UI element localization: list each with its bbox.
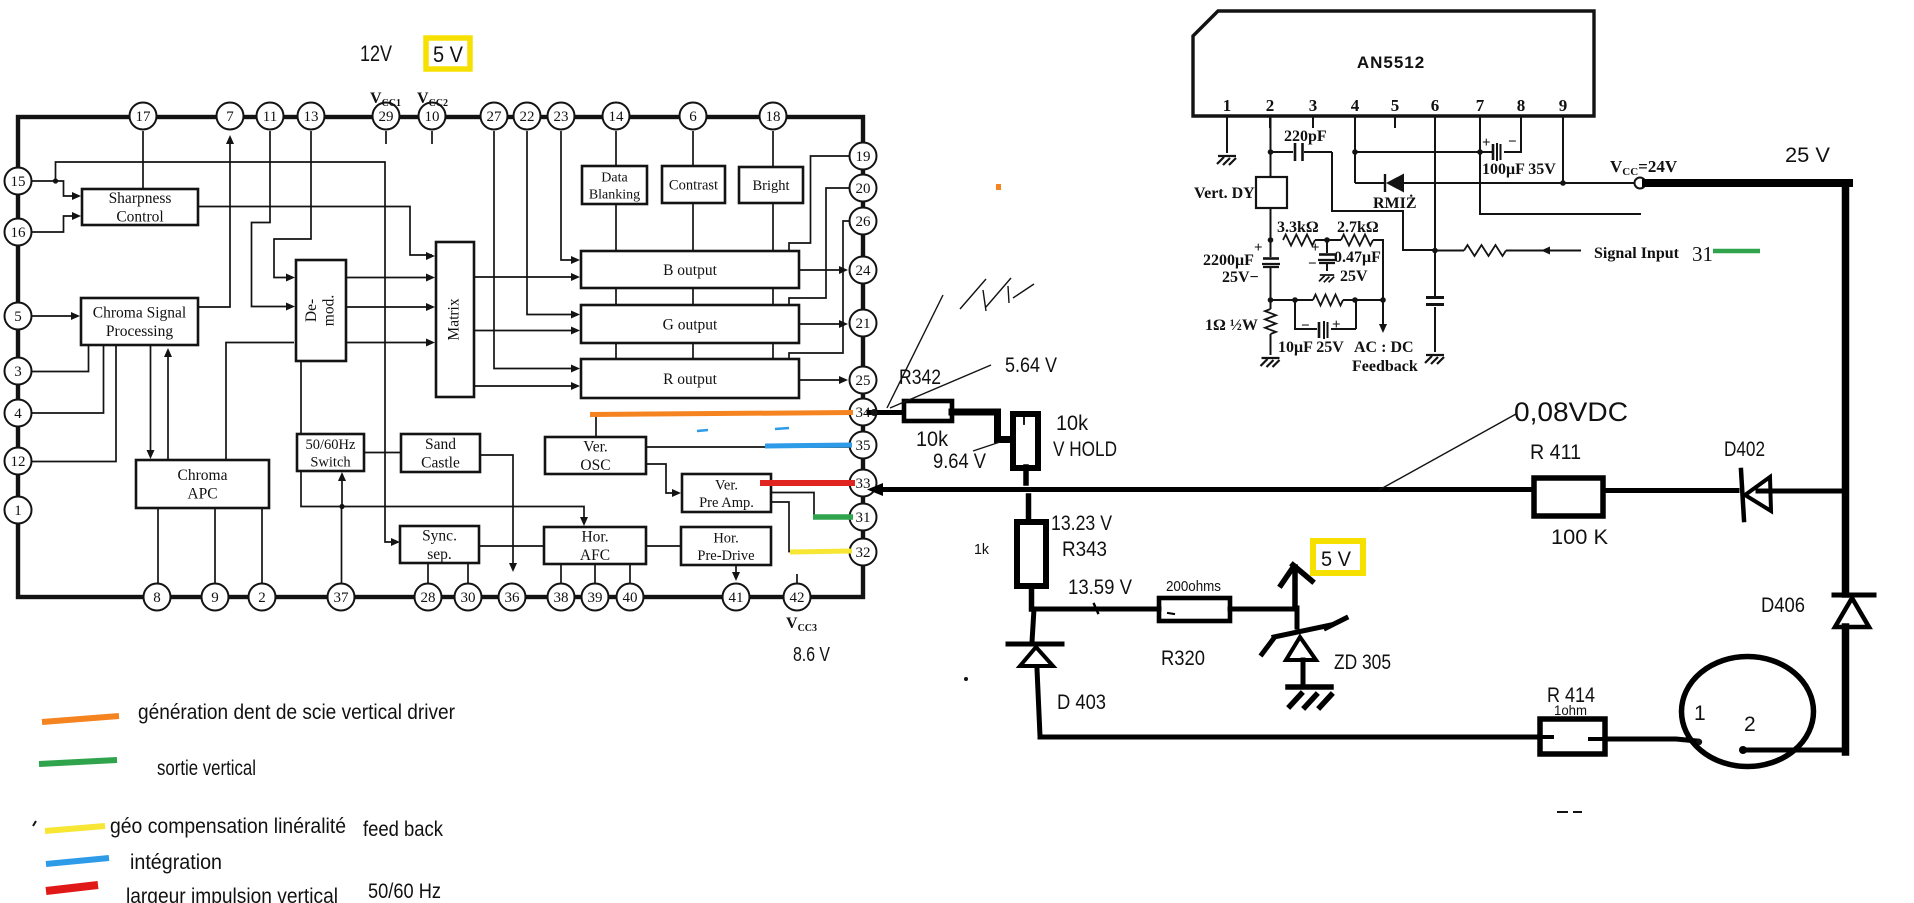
arrowhead Matrix to B output [571, 273, 580, 281]
svg-text:17: 17 [136, 109, 152, 125]
svg-text:+: + [1332, 317, 1341, 333]
wire 220pF to feedback node [1332, 152, 1434, 250]
svg-text:Castle: Castle [421, 455, 460, 472]
svg-text:27: 27 [487, 109, 503, 125]
wire Sync sep to pin30 [467, 563, 469, 583]
capacitor 2200uF 25V [1203, 240, 1280, 286]
stub pin10 [431, 131, 433, 144]
svg-text:5 V: 5 V [433, 42, 463, 67]
marker green line at 31 [1713, 249, 1760, 254]
block Hor. Pre-Drive [681, 527, 771, 565]
wire De-mod bottom to Hor AFC [301, 361, 584, 523]
potentiometer 10k V HOLD [1013, 414, 1038, 468]
svg-text:18: 18 [766, 109, 781, 125]
marker blue line pin35 (integration) [765, 445, 852, 446]
wire Chroma APC to pin2 [261, 508, 263, 583]
ground at AN5512 pin1 [1217, 156, 1236, 165]
svg-text:3: 3 [1309, 96, 1318, 115]
svg-text:31: 31 [856, 510, 871, 526]
svg-text:13.59 V: 13.59 V [1068, 576, 1132, 599]
svg-text:50/60Hz: 50/60Hz [306, 437, 357, 453]
legend red line [46, 885, 98, 891]
tiny dot left of D403 [964, 677, 968, 681]
svg-text:35: 35 [856, 438, 871, 454]
arrowhead down into pin 41 [732, 572, 740, 581]
svg-text:12V: 12V [360, 41, 392, 66]
pin 21 [850, 310, 877, 337]
svg-text:génération dent de scie vertic: génération dent de scie vertical driver [138, 701, 455, 724]
wire Chroma APC to Chroma Signal Processing [167, 351, 169, 460]
thick wire pin33 long horizontal [880, 490, 1845, 492]
pin 39 [582, 584, 609, 611]
arrowhead up into Chroma Signal Processing [164, 348, 172, 357]
wire De-mod output 1 to Matrix [346, 277, 432, 279]
wire Hor Pre-Drive to pin41 [735, 565, 737, 578]
pin 40 [617, 584, 644, 611]
svg-text:1: 1 [14, 503, 22, 519]
svg-text:25: 25 [856, 373, 871, 389]
svg-text:Sand: Sand [425, 436, 456, 453]
svg-text:mod.: mod. [320, 295, 337, 326]
pointer line sawtooth to pin34 [887, 295, 943, 408]
arrow up to 5V [1281, 565, 1312, 608]
pin 25 [850, 367, 877, 394]
wire R342 to V HOLD pot [952, 412, 1011, 440]
svg-text:Data: Data [601, 170, 628, 185]
wire Ver Pre Amp to pin31 [771, 493, 848, 518]
capacitor 10uF 25V [1278, 300, 1356, 356]
pin 15 [5, 168, 32, 195]
svg-text:3.3kΩ: 3.3kΩ [1277, 219, 1319, 236]
block Sync. sep. [400, 526, 479, 563]
wire pin12 to Chroma Signal Processing [31, 345, 116, 462]
arrowhead into Sync. sep. [391, 538, 400, 546]
wire pin7 from Chroma Signal Processing [198, 140, 230, 307]
resistor signal input [1464, 245, 1506, 256]
wire R output to pin25 [799, 379, 845, 381]
arrowhead signal input (points left) [1541, 247, 1550, 255]
svg-text:40: 40 [623, 590, 638, 606]
arrowhead into pin 33 [867, 483, 883, 496]
arrowhead Matrix to R output [571, 382, 580, 390]
svg-text:D 403: D 403 [1057, 691, 1106, 714]
capacitor 100uF 35V [1480, 134, 1556, 178]
svg-text:Ver.: Ver. [715, 477, 738, 493]
svg-text:25V−: 25V− [1222, 269, 1259, 286]
wire Hor AFC to pin40 [629, 564, 631, 583]
svg-text:−: − [1508, 134, 1517, 150]
wire pin34 to Ver OSC top [596, 413, 850, 437]
junction dot pin15 node [53, 178, 58, 183]
resistor R414 1ohm [1540, 719, 1605, 754]
pin 1 [5, 497, 32, 524]
svg-text:G output: G output [663, 316, 718, 333]
arrowhead into De-mod pin11 input [286, 303, 295, 311]
svg-text:sep.: sep. [427, 546, 452, 563]
svg-text:10k: 10k [916, 428, 948, 451]
svg-text:10k: 10k [1056, 412, 1088, 435]
resistor R320 200ohms [1159, 598, 1230, 621]
arrowhead into pin 25 [839, 376, 848, 384]
pin 4 [5, 400, 32, 427]
svg-text:sortie vertical: sortie vertical [157, 757, 256, 780]
capacitor 0.47uF 25V [1308, 240, 1381, 285]
wire pin6 to Contrast [692, 131, 694, 166]
wire AN5512 pin4 [1355, 116, 1479, 183]
svg-text:Pre Amp.: Pre Amp. [699, 495, 754, 511]
arrowhead into pin 24 [839, 266, 848, 274]
diode RMIZ [1373, 174, 1563, 213]
svg-text:10: 10 [425, 109, 440, 125]
wire Hor AFC to Hor Pre-Drive [646, 545, 681, 547]
block Hor. AFC [544, 527, 646, 564]
resistor R342 [904, 401, 952, 421]
svg-text:38: 38 [554, 590, 569, 606]
wire pin22 to G output [527, 131, 577, 315]
resistor on feedback rail [1313, 295, 1343, 306]
wire Chroma Signal Processing to Chroma APC [150, 345, 152, 456]
svg-text:13: 13 [304, 109, 319, 125]
arrowhead into Sharpness upper [72, 192, 81, 200]
AN5512 pin 6 [1431, 96, 1440, 128]
block Ver. Pre Amp. [682, 474, 771, 512]
pin 13 [298, 103, 325, 130]
arrowhead into Matrix 2 [426, 303, 435, 311]
thick wire pin34 to R342 [869, 410, 903, 415]
pin 33 [850, 470, 877, 497]
svg-text:ZD 305: ZD 305 [1334, 651, 1391, 674]
arrowhead into Matrix from Sharpness [426, 252, 435, 260]
svg-text:Pre-Drive: Pre-Drive [697, 548, 754, 564]
wire R343 to D403 node [1029, 586, 1035, 609]
resistor 1ohm half watt zigzag [1265, 309, 1276, 334]
svg-text:RMIŻ: RMIŻ [1373, 193, 1417, 212]
ground below 0.47uF [1319, 275, 1334, 282]
wire Sync sep to pin28 [427, 563, 429, 583]
svg-text:R343: R343 [1062, 538, 1107, 561]
pin 14 [603, 103, 630, 130]
svg-text:220pF: 220pF [1284, 128, 1327, 145]
svg-text:Switch: Switch [310, 454, 351, 470]
svg-text:Vert. DY: Vert. DY [1194, 185, 1255, 202]
pin 23 [548, 103, 575, 130]
wire Matrix to B output [474, 276, 577, 278]
wire pot bottom to vertical rail [1023, 467, 1029, 483]
wire pin37 to 50/60Hz Switch [341, 475, 344, 583]
pin 3 [5, 358, 32, 385]
arrowhead up into pin 7 [226, 135, 234, 144]
svg-text:4: 4 [14, 406, 22, 422]
svg-text:géo compensation linéralité: géo compensation linéralité [110, 815, 346, 838]
wire Hor AFC to pin38 [560, 564, 562, 583]
column Bright through outputs [772, 203, 774, 359]
wire Hor AFC to pin39 [594, 564, 596, 583]
ground below pin6 capacitor [1425, 355, 1444, 364]
pin 38 [548, 584, 575, 611]
svg-text:2.7kΩ: 2.7kΩ [1337, 219, 1379, 236]
svg-text:21: 21 [856, 316, 871, 332]
svg-text:Signal Input: Signal Input [1594, 245, 1680, 262]
pin 2 [249, 584, 276, 611]
wire pin4 to Chroma Signal Processing [31, 345, 104, 413]
sawtooth sketch [960, 278, 1034, 311]
svg-text:AFC: AFC [580, 547, 610, 564]
svg-text:8: 8 [1517, 96, 1526, 115]
svg-text:13.23 V: 13.23 V [1051, 512, 1112, 535]
svg-text:3: 3 [14, 364, 22, 380]
svg-text:AC : DC: AC : DC [1354, 339, 1414, 356]
svg-text:15: 15 [11, 174, 26, 190]
pin 41 [723, 584, 750, 611]
svg-text:OSC: OSC [580, 457, 610, 474]
arrowhead down into Hor AFC [580, 517, 588, 526]
pin 32 [850, 539, 877, 566]
pin 22 [514, 103, 541, 130]
AN5512 pin 4 [1351, 96, 1360, 128]
svg-text:R output: R output [663, 371, 718, 388]
wire 2.7k right to bottom rail [1373, 240, 1383, 300]
thick Vcc 25V wire [1646, 179, 1849, 187]
pin 42 [784, 584, 811, 611]
small orange dot [996, 184, 1001, 190]
svg-text:B output: B output [663, 262, 718, 279]
wire pin26 to R output top [789, 221, 849, 359]
svg-text:4: 4 [1351, 96, 1360, 115]
block Data Blanking [582, 166, 647, 204]
wire Chroma APC to pin8 [157, 508, 159, 583]
block Matrix [436, 242, 474, 397]
svg-text:41: 41 [729, 590, 744, 606]
wire De-mod output 2 to Matrix [346, 306, 432, 308]
svg-text:Chroma: Chroma [178, 467, 228, 484]
pin 19 [850, 143, 877, 170]
small dashes [1557, 811, 1582, 813]
wire Ver Pre Amp to pin33 [771, 483, 848, 485]
wire pin17 to Sharpness Control [142, 131, 144, 189]
svg-text:Control: Control [116, 209, 163, 226]
stub pin29 [385, 131, 387, 144]
annotation 5 V yellow box near zener [1313, 541, 1363, 573]
pointer line 0,08VDC [1379, 414, 1516, 490]
connector circle [1682, 657, 1814, 767]
tick on wire [1094, 604, 1098, 613]
svg-text:42: 42 [790, 590, 805, 606]
wire Sync sep to Hor AFC [479, 545, 544, 547]
svg-text:10μF 25V: 10μF 25V [1278, 339, 1344, 356]
legend green line [39, 760, 117, 764]
svg-text:25V: 25V [1340, 268, 1368, 285]
pointer line to 9.64V [973, 442, 1000, 451]
svg-text:19: 19 [856, 149, 871, 165]
Vcc terminal [1563, 157, 1678, 189]
svg-text:9: 9 [211, 590, 219, 606]
svg-text:Bright: Bright [752, 178, 789, 194]
svg-text:28: 28 [421, 590, 436, 606]
arrowhead into B output from pin23 [571, 256, 580, 264]
AN5512 pin 7 [1476, 96, 1485, 128]
AN5512 pin 2 [1266, 96, 1275, 128]
stub pin42 [796, 574, 798, 583]
block Sand Castle [401, 434, 480, 472]
svg-text:39: 39 [588, 590, 603, 606]
component Vert. DY (yoke) box [1194, 177, 1287, 208]
wire pin23 to B output [561, 131, 577, 260]
svg-text:6: 6 [1431, 96, 1440, 115]
pin 16 [5, 219, 32, 246]
svg-text:+: + [1254, 240, 1263, 256]
svg-text:1k: 1k [974, 541, 989, 558]
wire R414 to connector pin 1 [1605, 739, 1697, 741]
resistor 3.3k zigzag [1283, 235, 1315, 246]
block 50/60Hz Switch [297, 434, 364, 471]
svg-text:24: 24 [856, 263, 872, 279]
legend yellow line [45, 826, 105, 831]
svg-text:8.6 V: 8.6 V [793, 644, 831, 666]
IC AN5512 package outline [1193, 11, 1594, 116]
wire B output to pin24 [799, 269, 845, 271]
wire pin19 to B output top [789, 156, 849, 251]
block Bright [739, 167, 803, 203]
wire pin15 node [31, 180, 55, 182]
pin 5 [5, 303, 32, 330]
ground below ZD 305 [1288, 687, 1331, 707]
marker blue dashes above pin35 wire [697, 430, 708, 431]
wire pin14 to Data Blanking [615, 131, 617, 166]
svg-text:feed back: feed back [363, 818, 443, 841]
svg-text:D402: D402 [1724, 438, 1765, 461]
pin 10 [419, 103, 446, 130]
marker yellow line pin32 (geo compensation) [790, 551, 852, 552]
svg-text:1Ω ½W: 1Ω ½W [1205, 317, 1258, 334]
pin 24 [850, 257, 877, 284]
AN5512 pin 1 [1223, 96, 1232, 128]
svg-text:2: 2 [1744, 713, 1756, 736]
wire AN5512 pin8 to 100uF [1504, 116, 1521, 152]
diode D406 [1834, 595, 1874, 627]
wire De-mod output 3 to Matrix [346, 342, 432, 344]
pin 18 [760, 103, 787, 130]
svg-text:16: 16 [11, 225, 27, 241]
arrowhead down into pin 36 [509, 563, 517, 572]
svg-text:Chroma Signal: Chroma Signal [93, 305, 186, 322]
svg-text:32: 32 [856, 545, 871, 561]
pin 30 [455, 584, 482, 611]
svg-text:7: 7 [1476, 96, 1485, 115]
block Ver. OSC [545, 437, 646, 474]
arrowhead into Ver Pre Amp [672, 489, 681, 497]
svg-text:7: 7 [226, 109, 234, 125]
svg-text:largeur impulsion vertical: largeur impulsion vertical [126, 885, 338, 903]
arrowhead AC DC feedback [1379, 324, 1387, 333]
wire AN5512 pin1 to ground [1226, 116, 1228, 153]
svg-text:9.64 V: 9.64 V [933, 450, 986, 473]
wire 3.3k node [1315, 239, 1341, 241]
wire pin15 to Sharpness [56, 181, 79, 196]
resistor R411 100K [1534, 478, 1603, 516]
wire Matrix to R output [474, 385, 577, 387]
AC DC feedback arrow [1382, 300, 1384, 328]
svg-text:R320: R320 [1161, 647, 1205, 670]
svg-text:R 411: R 411 [1530, 441, 1581, 464]
wire pin5 to Chroma Signal Processing [31, 315, 77, 317]
svg-text:VCC=24V: VCC=24V [1610, 157, 1678, 178]
pin 8 [144, 584, 171, 611]
wire pin16 to Sharpness [31, 216, 78, 232]
svg-text:1: 1 [1223, 96, 1232, 115]
pin 6 [680, 103, 707, 130]
wire AN5512 pin6 down [1434, 116, 1436, 352]
wire pin15 long net to Sync sep [56, 162, 398, 542]
svg-text:100 K: 100 K [1551, 526, 1608, 549]
svg-text:100μF 35V: 100μF 35V [1482, 161, 1556, 178]
svg-text:9: 9 [1559, 96, 1568, 115]
zener diode ZD 305 [1262, 608, 1346, 686]
svg-text:5: 5 [1391, 96, 1400, 115]
pin 27 [481, 103, 508, 130]
block Sharpness Control [82, 189, 198, 226]
svg-text:22: 22 [520, 109, 535, 125]
wire AN5512 pin9 to Vcc rail [1562, 116, 1564, 183]
AN5512 pin 8 [1517, 96, 1526, 128]
wire Ver Pre Amp to pin32 [771, 502, 848, 552]
junction dot 50/60 branch [339, 504, 344, 509]
arrowhead Matrix to G output [571, 327, 580, 335]
wire rail to R343 [1026, 496, 1032, 522]
svg-text:2200μF: 2200μF [1203, 252, 1254, 269]
svg-text:Sharpness: Sharpness [109, 190, 172, 207]
svg-text:6: 6 [689, 109, 697, 125]
svg-text:−: − [1301, 318, 1310, 334]
ground below 1ohm resistor [1261, 358, 1280, 367]
svg-text:Contrast: Contrast [669, 178, 718, 194]
svg-text:37: 37 [334, 590, 350, 606]
pin 31 [850, 504, 877, 531]
diode D403 [1008, 609, 1062, 736]
svg-text:Hor.: Hor. [713, 530, 738, 546]
marker orange line pin34 (dent de scie) [590, 413, 853, 415]
pin 37 [328, 584, 355, 611]
svg-text:Blanking: Blanking [589, 187, 640, 202]
pin 17 [130, 103, 157, 130]
svg-text:1ohm: 1ohm [1554, 702, 1587, 718]
pin 26 [850, 208, 877, 235]
AN5512 pin 5 [1391, 96, 1400, 128]
svg-text:14: 14 [609, 109, 625, 125]
svg-text:Matrix: Matrix [446, 298, 463, 340]
IC package border [18, 117, 863, 597]
wire 13.59V node to R320 [1032, 607, 1160, 612]
wire 50/60Hz Switch to Sand Castle [364, 452, 401, 454]
svg-text:Processing: Processing [106, 323, 173, 340]
wire AN5512 pin7 down and right [1480, 116, 1641, 214]
svg-text:23: 23 [554, 109, 569, 125]
arrowhead into De-mod pin13 input [286, 274, 295, 282]
svg-text:+: + [1311, 240, 1320, 256]
pin 35 [850, 432, 877, 459]
svg-text:20: 20 [856, 181, 871, 197]
svg-text:V HOLD: V HOLD [1053, 438, 1117, 461]
annotation 5 V yellow box top [426, 38, 470, 69]
wire Sand Castle to pin36 [480, 455, 513, 568]
wire bottom feedback rail [1271, 299, 1384, 301]
svg-text:De-: De- [303, 299, 320, 322]
svg-text:1: 1 [1694, 702, 1706, 725]
pin 29 [373, 103, 400, 130]
pin 20 [850, 175, 877, 202]
wire pin3 to Chroma Signal Processing [31, 345, 89, 372]
pin 11 [257, 103, 284, 130]
svg-text:30: 30 [461, 590, 476, 606]
